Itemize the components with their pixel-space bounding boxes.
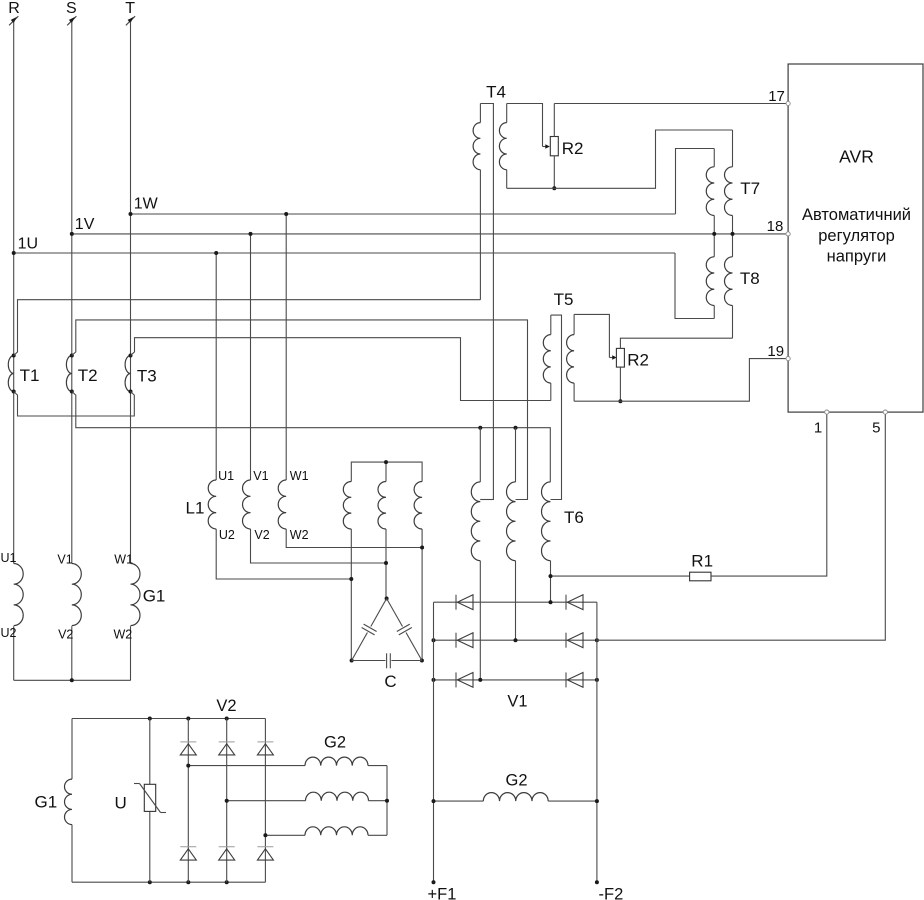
diode V2 leg2 top	[219, 742, 235, 755]
svg-text:U1: U1	[1, 551, 17, 565]
varistor U label	[115, 794, 127, 813]
T7 right coil	[725, 167, 733, 216]
T4 primary coil	[473, 104, 480, 300]
transformer T1 label	[20, 366, 40, 385]
diode V2 leg2 bottom	[219, 847, 235, 860]
T7 left coil	[706, 167, 714, 216]
V2 leg 2	[226, 719, 228, 883]
diode V1 row3 left	[456, 672, 473, 687]
wire T feeder	[130, 22, 132, 564]
wire L1 W2 to aux winding	[286, 529, 422, 548]
aux winding 3	[414, 482, 422, 529]
svg-text:U: U	[115, 794, 127, 813]
inductor L1 winding U	[208, 480, 216, 529]
diode V1 row3 right	[566, 672, 583, 687]
transformer T2 winding	[66, 354, 73, 394]
V1 row 3 rail	[432, 678, 599, 682]
aux winding 1	[343, 482, 351, 529]
wire T3 top to T5 primary	[131, 338, 551, 401]
T5 primary bracket	[551, 315, 562, 499]
terminal label S	[66, 0, 77, 17]
wire G1 star bus	[14, 678, 131, 682]
T5 primary coil	[543, 315, 551, 400]
svg-text:T1: T1	[20, 366, 40, 385]
inductor L1 winding W	[278, 480, 286, 529]
svg-text:V2: V2	[216, 697, 236, 715]
pin label L1 W2	[290, 528, 309, 542]
G1 winding V	[72, 564, 82, 626]
T4 primary bracket	[480, 104, 493, 500]
inductor L1 label	[186, 499, 205, 518]
wire 1W bus	[129, 212, 676, 216]
terminal +F1 label	[428, 886, 457, 900]
aux winding star bracket	[351, 460, 422, 481]
transformer T7 label	[740, 179, 760, 198]
exciter armature G2 label	[324, 733, 346, 751]
diode V2 leg1 bottom	[180, 847, 196, 860]
terminal label R	[8, 0, 20, 17]
AVR box	[788, 64, 923, 412]
R1 label	[691, 552, 713, 571]
svg-text:G1: G1	[143, 587, 166, 606]
wire T2 bottom to T6 tops bus	[72, 392, 551, 482]
svg-text:+F1: +F1	[428, 886, 457, 900]
transformer T3 label	[137, 367, 157, 386]
terminal label T	[125, 0, 135, 17]
svg-text:S: S	[66, 0, 77, 17]
svg-text:R1: R1	[691, 552, 713, 571]
T6 coil 3	[541, 482, 550, 561]
diode V1 row1 right	[566, 595, 583, 610]
T8 left coil	[706, 257, 714, 306]
G2 star point	[385, 766, 389, 836]
svg-text:W1: W1	[114, 553, 133, 567]
R2 label (T4)	[562, 139, 584, 158]
T6 tap 1	[480, 499, 493, 501]
wire T6 to R1	[549, 574, 690, 578]
pin 18 mark	[767, 218, 791, 236]
capacitor delta bottom side	[352, 660, 422, 662]
pin label L1 V2	[254, 528, 269, 542]
svg-text:U2: U2	[1, 626, 17, 640]
svg-text:G1: G1	[35, 793, 58, 812]
exciter loop bottom rail	[72, 880, 265, 884]
wire 19: T5 secondary bottom to AVR	[574, 359, 786, 402]
svg-text:T4: T4	[486, 83, 506, 102]
T4 secondary coil	[499, 104, 506, 189]
pin label G1 W2	[114, 628, 133, 642]
inductor L1 winding V	[242, 480, 250, 529]
wire L1 U2 to aux winding	[216, 529, 351, 579]
svg-text:T7: T7	[740, 179, 760, 198]
T8 right coil	[724, 257, 732, 306]
rectifier V2 label	[216, 697, 236, 715]
T6 winding 2 line	[515, 428, 517, 641]
T7/T8 left winding line	[712, 149, 716, 319]
transformer T8 label	[740, 269, 760, 288]
pin label G1 V2	[58, 628, 73, 642]
capacitor delta right side	[387, 599, 422, 661]
svg-text:L1: L1	[186, 499, 205, 518]
T5 secondary top to wiper	[574, 314, 609, 357]
field winding G2 label	[505, 772, 527, 790]
pin label G1 W1	[114, 553, 133, 567]
wire 1U to T8 bracket	[675, 253, 714, 319]
svg-text:AVR: AVR	[839, 147, 874, 167]
R2 bottom lead	[552, 156, 556, 191]
R2 wiper arrow (T5)	[609, 355, 616, 360]
pin label L1 U2	[219, 528, 235, 542]
svg-text:W2: W2	[114, 628, 133, 642]
potentiometer R2 (T4)	[550, 137, 558, 156]
transformer T5 label	[554, 290, 574, 309]
wire 17 to AVR	[554, 103, 786, 105]
capacitor delta left side	[352, 599, 387, 661]
svg-text:1U: 1U	[18, 236, 38, 253]
pin 17 mark	[768, 88, 790, 106]
V2 leg 1	[187, 719, 189, 883]
svg-text:R: R	[8, 0, 20, 17]
wire 1U bus	[12, 251, 675, 255]
wire L1 W drop	[284, 212, 288, 480]
field winding G2 coil	[483, 793, 548, 802]
svg-text:18: 18	[767, 218, 784, 235]
R2 label (T5)	[627, 351, 649, 370]
varistor U body	[144, 784, 155, 811]
R2 wiper arrow (T4)	[543, 144, 550, 149]
capacitor C bottom plates	[387, 653, 391, 668]
transformer T2 label	[78, 366, 98, 385]
R2 top lead	[553, 104, 555, 137]
svg-text:17: 17	[768, 88, 785, 105]
svg-text:T5: T5	[554, 290, 574, 309]
wire T1 bottom to T3 bottom	[14, 392, 135, 417]
supply arrow T	[126, 16, 135, 25]
rectifier V1 label	[507, 693, 527, 711]
wire aux3 down	[420, 529, 424, 663]
T5 secondary coil	[567, 314, 575, 401]
svg-text:U1: U1	[218, 469, 234, 483]
capacitor C left plates	[362, 624, 377, 635]
wire R1 to AVR pin 1	[711, 412, 827, 576]
svg-text:C: C	[384, 672, 396, 691]
diode V2 leg3 bottom	[257, 847, 273, 860]
svg-text:T3: T3	[137, 367, 157, 386]
diode V1 row2 right	[566, 633, 583, 648]
transformer T6 label	[564, 508, 584, 527]
capacitor C right plates	[397, 624, 412, 635]
V1 negative rail to -F2	[595, 602, 599, 884]
T4 secondary top to wiper	[507, 104, 543, 147]
svg-text:V1: V1	[507, 693, 527, 711]
R2 top lead to T8	[620, 338, 732, 348]
svg-text:V1: V1	[57, 553, 72, 567]
wire T6 tops bus dots	[478, 426, 517, 430]
diode V2 leg3 top	[257, 742, 273, 755]
svg-text:W2: W2	[290, 528, 309, 542]
wire L1 U drop	[214, 251, 218, 480]
T6 winding 1 line	[479, 428, 481, 680]
transformer T3 winding	[125, 354, 132, 394]
svg-text:R2: R2	[562, 139, 584, 158]
resistor R1	[690, 572, 711, 581]
svg-text:G2: G2	[324, 733, 346, 751]
diode V1 row2 left	[456, 633, 473, 648]
svg-text:Автоматичний: Автоматичний	[802, 206, 911, 224]
G2 phase row 3	[263, 827, 387, 838]
terminal -F2 label	[599, 886, 624, 900]
wire R lower	[13, 626, 15, 680]
svg-text:G2: G2	[505, 772, 527, 790]
diode V1 row1 left	[456, 595, 473, 610]
wire V1 row2 to AVR pin 5	[597, 412, 885, 640]
svg-text:напруги: напруги	[827, 248, 887, 266]
svg-text:V2: V2	[254, 528, 269, 542]
svg-text:T: T	[125, 0, 135, 17]
svg-text:V1: V1	[253, 469, 268, 483]
T7/T8 right winding line	[731, 130, 735, 338]
exciter G1 winding	[65, 719, 73, 883]
svg-text:U2: U2	[219, 528, 235, 542]
pin label G1 U2	[1, 626, 17, 640]
wire R feeder	[13, 22, 15, 564]
V2 leg 3	[264, 719, 266, 883]
wire L1 V drop	[249, 232, 253, 480]
R2 bottom lead	[618, 367, 622, 403]
wire T2 top to T6 tap	[72, 320, 528, 500]
AVR title	[839, 147, 874, 167]
exciter loop top rail	[72, 717, 265, 721]
varistor U lead	[149, 719, 151, 883]
generator G1 label	[143, 587, 166, 606]
wire 1V bus (to AVR pin 18)	[70, 232, 786, 236]
wire G2 field to -rail	[548, 799, 599, 803]
wire +rail to G2 field	[432, 799, 484, 803]
T6 coil 1	[471, 482, 480, 561]
diode V2 leg1 top	[180, 742, 196, 755]
wire aux1 down	[349, 529, 353, 663]
T6 coil 2	[506, 482, 515, 561]
svg-text:-F2: -F2	[599, 886, 624, 900]
svg-text:1W: 1W	[134, 195, 159, 212]
potentiometer R2 (T5)	[616, 348, 624, 367]
V1 row 2 rail	[432, 638, 599, 642]
wire 1W to T7 bracket	[676, 149, 715, 215]
wire T lower	[130, 626, 132, 680]
wire T1 top to T4 primary	[14, 300, 481, 356]
node 1V label	[75, 216, 95, 233]
pin label G1 U1	[1, 551, 17, 565]
svg-text:R2: R2	[627, 351, 649, 370]
svg-text:регулятор: регулятор	[818, 227, 895, 245]
G2 phase row 1	[186, 757, 387, 768]
svg-text:T2: T2	[78, 366, 98, 385]
wire S lower	[71, 626, 73, 680]
pin label L1 U1	[218, 469, 234, 483]
transformer T4 label	[486, 83, 506, 102]
capacitor block label C	[384, 672, 396, 691]
svg-text:T8: T8	[740, 269, 760, 288]
wire L1 V2 to aux winding	[251, 529, 387, 563]
svg-text:T6: T6	[564, 508, 584, 527]
transformer T1 winding	[8, 354, 15, 394]
pin label G1 V1	[57, 553, 72, 567]
G1 winding W	[131, 564, 141, 626]
svg-text:19: 19	[767, 343, 784, 360]
svg-text:W1: W1	[290, 469, 309, 483]
aux winding 2	[378, 482, 386, 529]
supply arrow R	[9, 16, 18, 25]
pin 1 mark	[814, 410, 829, 437]
varistor U diagonal	[134, 784, 166, 813]
pin label L1 W1	[290, 469, 309, 483]
svg-text:5: 5	[872, 420, 880, 437]
G2 phase row 2	[225, 792, 387, 802]
node 1U label	[18, 236, 38, 253]
wire aux2 down	[384, 529, 389, 601]
wire T4 secondary bottom to T7	[507, 130, 733, 188]
T6 winding 3 line	[550, 561, 552, 603]
AVR description text	[802, 206, 911, 266]
pin 19 mark	[767, 343, 790, 361]
exciter G1 label	[35, 793, 58, 812]
V1 row 1 rail	[434, 600, 597, 604]
V1 positive rail to +F1	[432, 602, 436, 884]
pin label L1 V1	[253, 469, 268, 483]
svg-text:1V: 1V	[75, 216, 95, 233]
supply arrow S	[67, 16, 76, 25]
wire S feeder	[71, 22, 73, 564]
G1 winding U	[14, 564, 24, 626]
svg-text:1: 1	[814, 420, 822, 437]
pin 5 mark	[872, 410, 887, 437]
svg-text:V2: V2	[58, 628, 73, 642]
node 1W label	[134, 195, 159, 212]
